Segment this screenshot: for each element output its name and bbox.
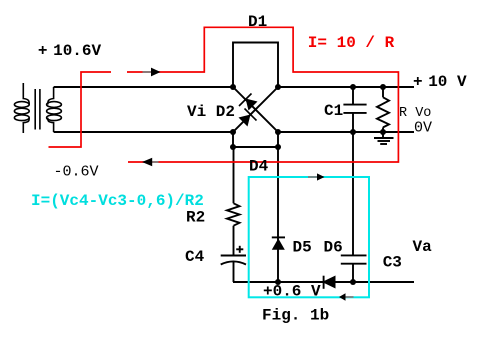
svg-text:C1: C1 — [324, 102, 343, 120]
wire R bottom lead — [382, 127, 384, 132]
junction node bridge bottom-right — [275, 144, 281, 150]
svg-text:I= 10 / R: I= 10 / R — [308, 34, 395, 52]
wire C1 column — [352, 87, 354, 104]
wire secondary bottom to bridge — [54, 131, 233, 133]
svg-text:D5: D5 — [293, 239, 312, 257]
junction node bridge mid-right — [275, 129, 281, 135]
arrow on bottom red path — [142, 158, 159, 167]
svg-text:10.6V: 10.6V — [53, 42, 101, 60]
resistor R2 — [227, 203, 240, 225]
wire secondary top to bridge — [54, 86, 233, 88]
diode D3 diagonal wire — [233, 87, 278, 132]
junction node C1 top — [350, 84, 356, 90]
bottom wire rail — [233, 281, 414, 283]
capacitor C3 — [341, 255, 367, 263]
arrow on top red path — [143, 68, 161, 77]
svg-text:Va: Va — [413, 238, 433, 256]
svg-text:+: + — [413, 73, 423, 91]
junction node C3 bottom rail — [350, 279, 356, 285]
diode D6 symbol triangle — [322, 276, 336, 289]
junction node bridge top-right — [275, 84, 281, 90]
wire R2 to C4 — [233, 226, 235, 256]
C4 plus sign — [236, 246, 243, 253]
wire bridge to +10V output — [278, 86, 414, 88]
svg-text:Fig. 1b: Fig. 1b — [262, 307, 329, 325]
junction node R bottom / ground — [380, 129, 386, 135]
diode D5 symbol triangle — [272, 238, 285, 249]
capacitor C4 (polarized) — [221, 256, 246, 265]
capacitor C1 — [343, 105, 366, 113]
svg-text:R2: R2 — [186, 209, 205, 227]
svg-text:C4: C4 — [185, 248, 205, 266]
junction node bridge bottom-left — [230, 144, 236, 150]
junction node R top — [380, 84, 386, 90]
cyan current loop — [249, 177, 369, 297]
diode D2 diagonal wire — [233, 87, 278, 132]
wire bridge right column down through D5 — [277, 147, 279, 282]
ground — [374, 132, 394, 144]
diode D4 branch (bottom of bridge) — [233, 132, 278, 147]
svg-text:D1: D1 — [248, 13, 267, 31]
resistor R — [377, 97, 389, 127]
wire C3 to bottom rail — [352, 264, 354, 282]
junction node D5 bottom rail — [275, 279, 281, 285]
wire R top lead — [382, 87, 384, 97]
junction node C1 bottom — [350, 129, 356, 135]
svg-text:D6: D6 — [324, 239, 343, 257]
wire bridge to 0V output — [278, 131, 414, 133]
junction node bridge mid-left — [230, 129, 236, 135]
wire C1 bottom — [352, 113, 354, 132]
diode D5 cathode bar — [272, 236, 285, 238]
wire C4 to bottom rail — [233, 262, 235, 283]
svg-text:I=(Vc4-Vc3-0,6)/R2: I=(Vc4-Vc3-0,6)/R2 — [31, 192, 204, 210]
transformer T1 secondary winding — [47, 87, 62, 132]
svg-text:0V: 0V — [414, 120, 432, 137]
svg-text:10 V: 10 V — [428, 73, 467, 91]
diode D2 symbol — [239, 94, 258, 111]
transformer T1 core — [35, 89, 40, 130]
arrow on cyan bottom edge — [339, 293, 354, 300]
svg-text:+: + — [38, 42, 48, 60]
diode D3 symbol — [239, 109, 257, 127]
svg-text:D4: D4 — [249, 158, 269, 176]
wire bridge left column down to R2 — [233, 147, 235, 203]
svg-text:-0.6V: -0.6V — [54, 164, 99, 181]
diode D1 branch (top box of bridge) — [233, 43, 278, 88]
junction node bridge top-left — [230, 84, 236, 90]
transformer T1 primary winding — [14, 83, 29, 133]
svg-text:C3: C3 — [383, 254, 402, 272]
wire 0V rail down to C3 — [352, 132, 354, 255]
svg-text:+0.6 V: +0.6 V — [263, 282, 321, 300]
arrow on cyan top edge — [308, 173, 325, 180]
red current loop I=10/R — [49, 27, 399, 162]
svg-text:Vi D2: Vi D2 — [187, 103, 235, 121]
diode D6 cathode bar — [323, 276, 325, 289]
